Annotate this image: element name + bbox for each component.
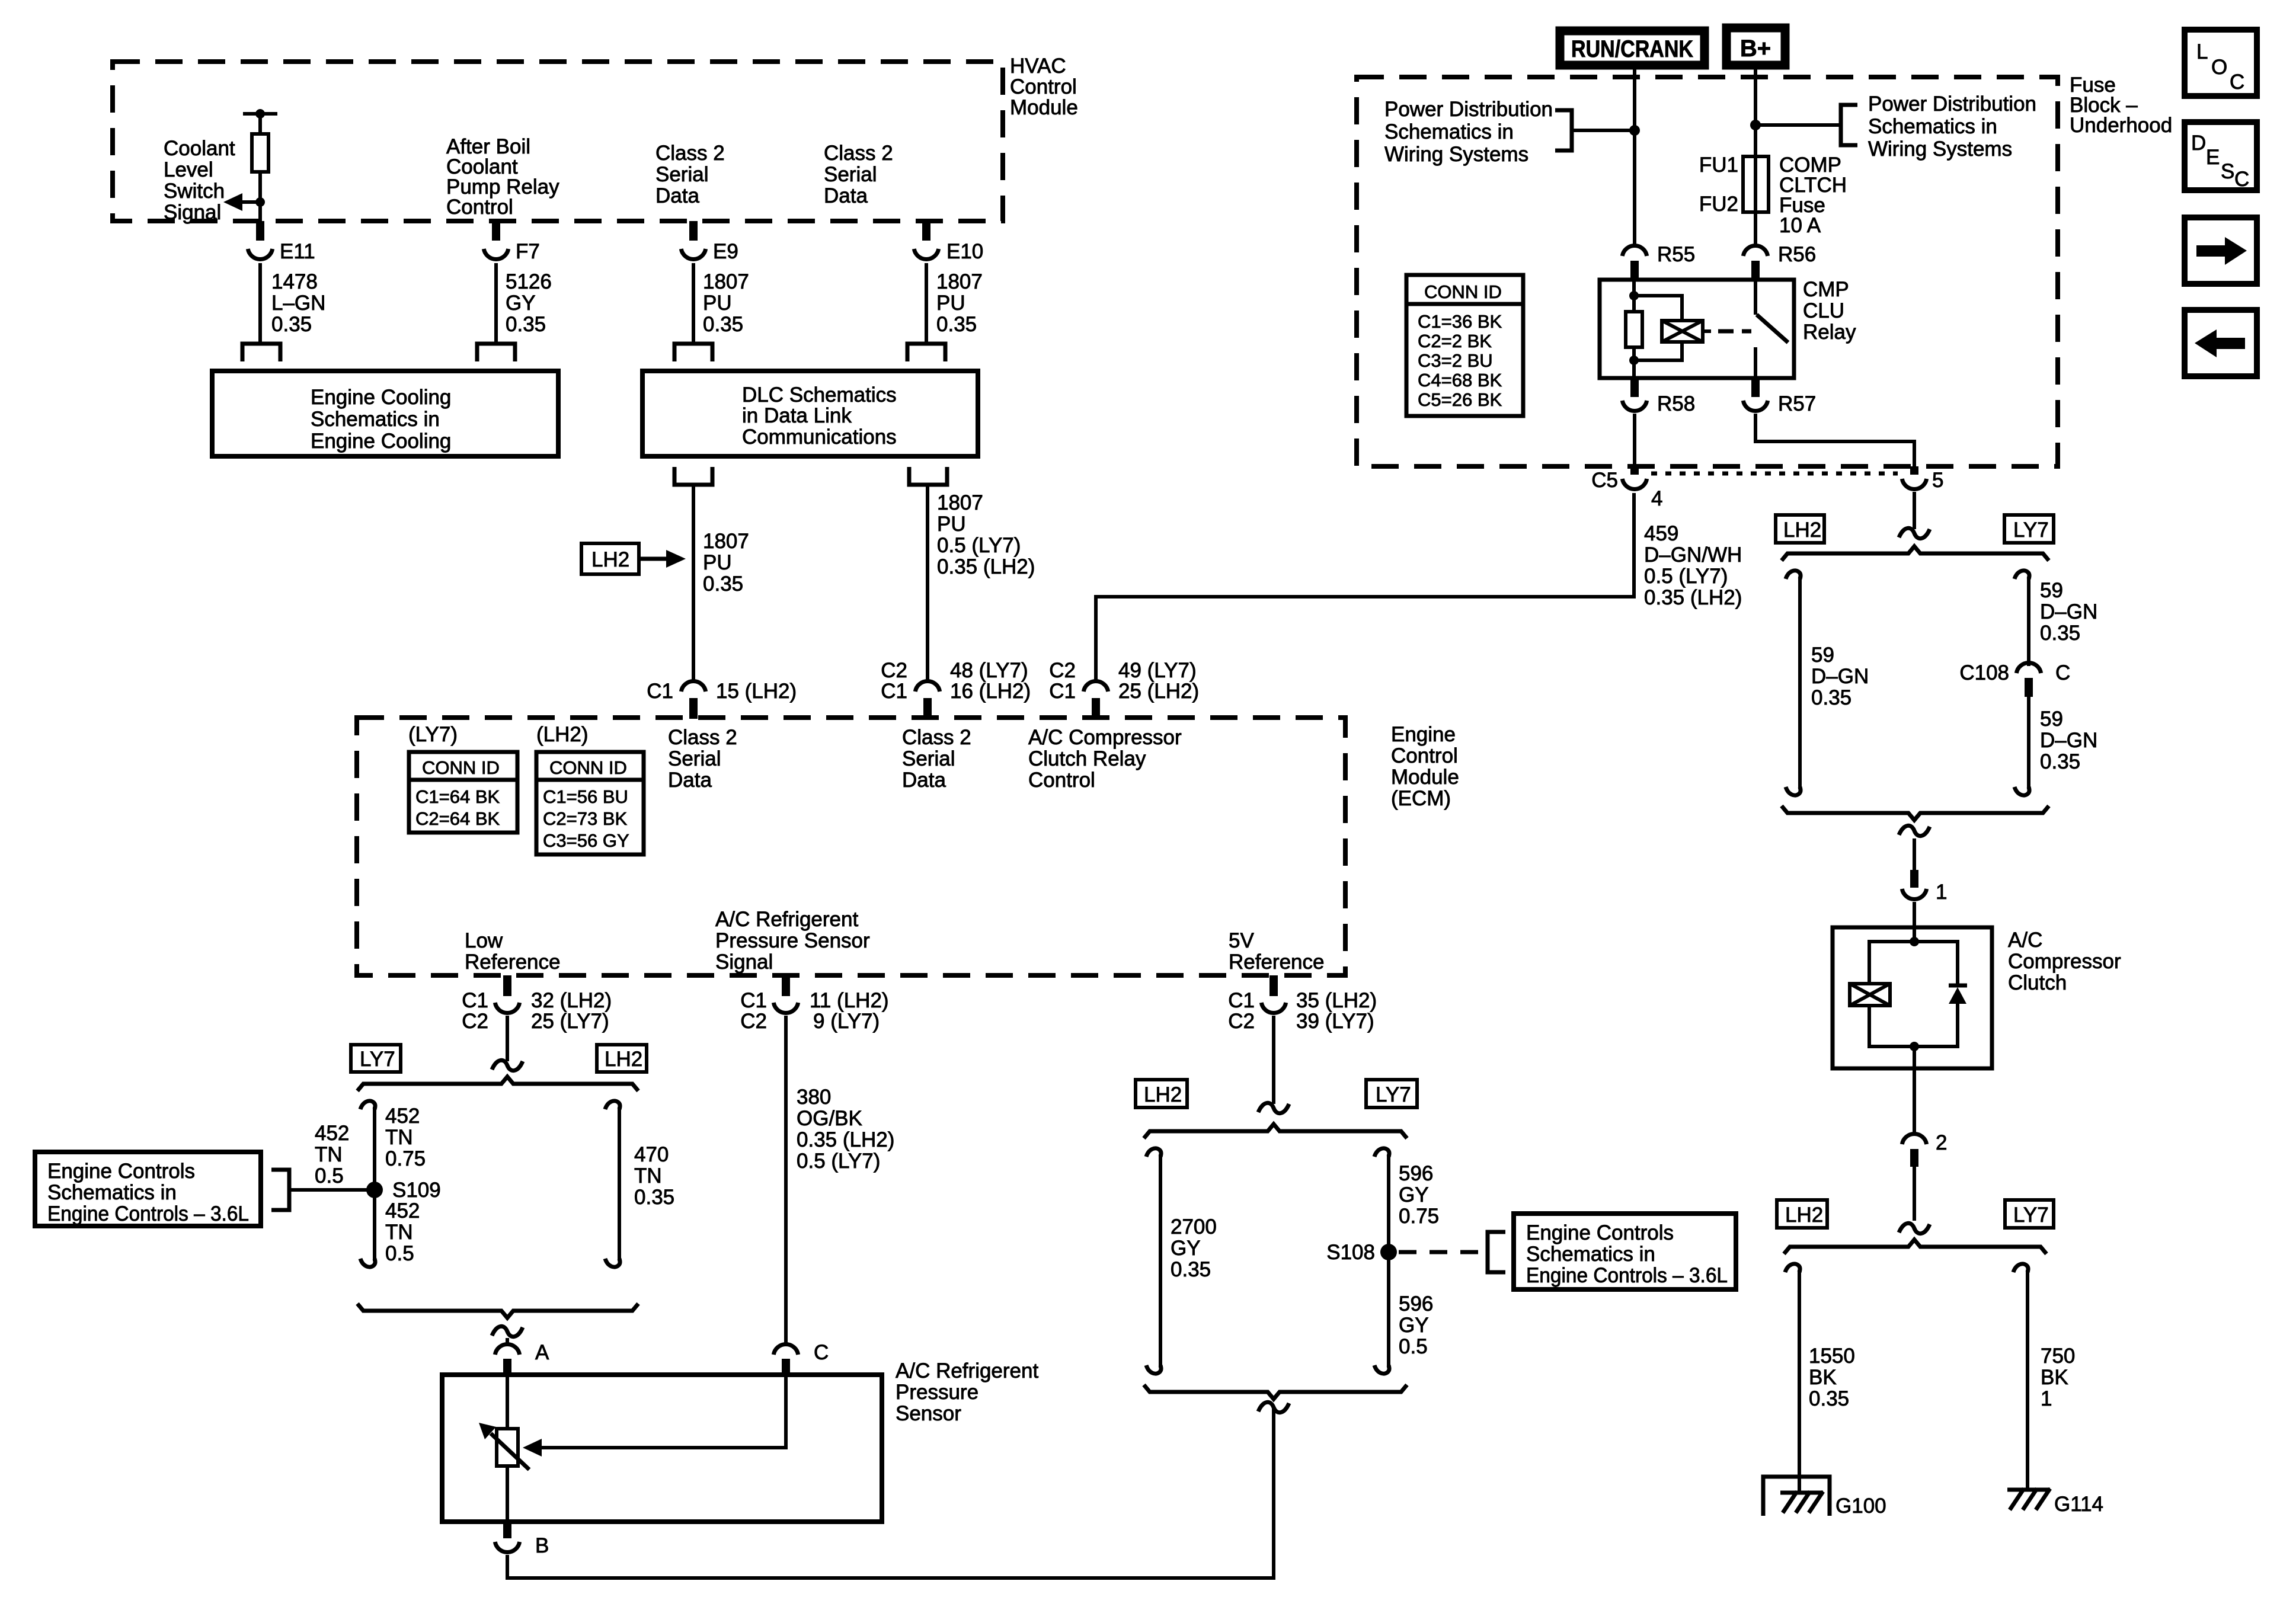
svg-text:B+: B+	[1740, 36, 1771, 62]
svg-text:PU: PU	[703, 551, 732, 574]
ground G100	[1763, 1477, 1886, 1518]
svg-text:0.5: 0.5	[315, 1164, 344, 1188]
label 596 GY 0.5 (below S108)	[1399, 1292, 1433, 1358]
svg-text:in Data Link: in Data Link	[742, 404, 852, 427]
wire 452 TN 0.75 branch (LY7)	[360, 1101, 426, 1267]
svg-text:0.5: 0.5	[1399, 1335, 1428, 1358]
break symbol (below connector 2)	[1899, 1223, 1930, 1233]
svg-text:Serial: Serial	[668, 747, 721, 770]
splice S108	[1326, 1241, 1397, 1264]
svg-text:0.35 (LH2): 0.35 (LH2)	[1644, 586, 1742, 609]
wire DLC to ECM C1 pin 15	[692, 485, 695, 681]
svg-text:0.5: 0.5	[385, 1242, 414, 1265]
svg-text:5: 5	[1932, 469, 1943, 492]
svg-text:1: 1	[2041, 1387, 2052, 1410]
svg-text:0.5 (LY7): 0.5 (LY7)	[797, 1150, 880, 1173]
svg-text:(LY7): (LY7)	[408, 723, 458, 746]
svg-text:1807: 1807	[937, 491, 983, 514]
svg-text:C1: C1	[647, 680, 673, 703]
break symbol (above clutch connector 1)	[1899, 825, 1930, 836]
svg-text:PU: PU	[937, 513, 966, 536]
svg-text:1478: 1478	[271, 270, 318, 293]
icon DESC	[2185, 122, 2257, 191]
wire 1807 PU 0.35 (E10)	[926, 263, 983, 344]
relay CMP CLU box	[1600, 278, 1856, 378]
svg-text:BK: BK	[2041, 1366, 2068, 1389]
A/C Refrigerent Pressure Sensor box	[442, 1359, 1038, 1522]
svg-text:E: E	[2206, 146, 2220, 169]
svg-text:S108: S108	[1326, 1241, 1375, 1264]
svg-text:Engine: Engine	[1391, 723, 1456, 746]
svg-text:C2: C2	[881, 659, 907, 682]
break symbol (5V reference)	[1258, 1103, 1289, 1113]
svg-text:TN: TN	[634, 1164, 662, 1188]
brace split top (59 D-GN)	[1782, 546, 2049, 561]
dashed lead S108 to bracket	[1399, 1250, 1482, 1254]
svg-text:C2=64 BK: C2=64 BK	[415, 808, 500, 829]
svg-text:Control: Control	[1028, 769, 1095, 792]
svg-text:L–GN: L–GN	[271, 292, 325, 315]
svg-text:Communications: Communications	[742, 425, 897, 449]
svg-text:R57: R57	[1778, 392, 1816, 415]
svg-text:0.35: 0.35	[936, 313, 977, 336]
node RUN/CRANK junction	[1572, 125, 1640, 136]
label HVAC Control Module	[1010, 55, 1078, 119]
connector pin C1/C2 11/9 (Pressure Sensor Signal)	[740, 975, 888, 1033]
svg-text:(LH2): (LH2)	[536, 723, 589, 746]
svg-text:C5=26 BK: C5=26 BK	[1418, 389, 1502, 410]
svg-text:D: D	[2191, 132, 2206, 155]
svg-text:Engine Cooling: Engine Cooling	[311, 386, 451, 409]
svg-text:0.35: 0.35	[2040, 750, 2080, 773]
svg-text:C1: C1	[462, 989, 488, 1012]
svg-text:59: 59	[2040, 579, 2063, 602]
svg-text:750: 750	[2041, 1345, 2075, 1368]
connector pin C2/C1 49/25	[1049, 659, 1199, 719]
goalpost into DLC box (E10)	[907, 344, 945, 361]
svg-text:11 (LH2): 11 (LH2)	[810, 989, 889, 1012]
wire DLC to ECM C2/C1 pin 48/16	[926, 485, 929, 681]
svg-text:Relay: Relay	[1803, 321, 1856, 344]
wire 1807 PU 0.35 (E9)	[693, 263, 749, 344]
svg-text:0.35 (LH2): 0.35 (LH2)	[937, 555, 1035, 578]
wire R58 to C5 pin 4	[1633, 414, 1636, 468]
svg-text:O: O	[2211, 56, 2227, 79]
goalpost exit below DLC box (left)	[674, 467, 712, 485]
svg-text:5V: 5V	[1229, 929, 1254, 952]
svg-text:E10: E10	[946, 240, 983, 263]
label Low Reference	[465, 929, 560, 974]
wire 459 D-GN/WH label	[1644, 522, 1742, 609]
bracket to Engine Controls box (S108)	[1488, 1232, 1505, 1272]
svg-text:Schematics in: Schematics in	[47, 1181, 177, 1204]
node B+ junction	[1750, 120, 1841, 130]
tag LY7 (59 split right)	[2004, 515, 2054, 543]
wire 59 D-GN 0.35 upper branch (LY7)	[2014, 571, 2097, 666]
svg-text:Serial: Serial	[902, 747, 955, 770]
svg-text:Control: Control	[446, 196, 513, 219]
tag LH2 (ground split left)	[1777, 1200, 1827, 1228]
wire RUN/CRANK down to R55	[1633, 65, 1636, 247]
connector pin B	[495, 1522, 549, 1557]
connector pin C1/C2 32/25 (Low Reference)	[462, 975, 612, 1033]
svg-text:R55: R55	[1657, 243, 1695, 266]
relay coil winding symbol	[1634, 296, 1703, 360]
svg-text:452: 452	[385, 1105, 420, 1128]
svg-text:LY7: LY7	[360, 1048, 395, 1071]
svg-text:Engine Controls – 3.6L: Engine Controls – 3.6L	[47, 1202, 249, 1225]
svg-text:59: 59	[2040, 708, 2063, 731]
clutch coil and diode	[1850, 927, 1967, 1068]
connector pin C1/C2 35/39 (5V Reference)	[1228, 975, 1377, 1033]
connector pin E9	[681, 221, 738, 263]
svg-text:0.35: 0.35	[506, 313, 546, 336]
svg-text:5126: 5126	[506, 270, 552, 293]
svg-text:TN: TN	[315, 1143, 343, 1166]
svg-text:F7: F7	[516, 240, 540, 263]
wire 2700 GY 0.35 branch (LH2)	[1146, 1148, 1217, 1374]
svg-text:596: 596	[1399, 1292, 1433, 1315]
svg-text:380: 380	[797, 1086, 831, 1109]
svg-text:2: 2	[1936, 1131, 1947, 1154]
svg-text:Engine Cooling: Engine Cooling	[311, 430, 451, 453]
svg-text:0.35: 0.35	[1811, 686, 1851, 709]
break symbol (above sensor A)	[492, 1326, 523, 1336]
svg-text:LY7: LY7	[2013, 1204, 2049, 1227]
goalpost into Engine Cooling box (F7)	[477, 344, 515, 361]
svg-text:CLU: CLU	[1803, 299, 1844, 322]
connector pin R55	[1622, 243, 1695, 281]
goalpost exit below DLC box (right)	[909, 467, 947, 485]
icon arrow left	[2185, 310, 2257, 376]
svg-text:32 (LH2): 32 (LH2)	[531, 989, 612, 1012]
svg-text:49 (LY7): 49 (LY7)	[1118, 659, 1197, 682]
svg-text:CONN ID: CONN ID	[1424, 281, 1502, 302]
svg-text:CMP: CMP	[1803, 278, 1849, 301]
svg-text:9 (LY7): 9 (LY7)	[813, 1010, 880, 1033]
wire pin C to variable resistor wiper	[523, 1375, 786, 1457]
label Class 2 Serial Data (pin 48)	[902, 726, 971, 792]
label 5V Reference	[1229, 929, 1324, 974]
label 1807 PU 0.35 (mid)	[703, 530, 749, 596]
svg-text:Signal: Signal	[715, 950, 773, 974]
svg-text:1807: 1807	[703, 270, 749, 293]
label (LY7)	[408, 723, 458, 746]
svg-text:Pressure Sensor: Pressure Sensor	[715, 929, 870, 952]
wire 59 D-GN 0.35 lower branch (LY7)	[2014, 697, 2097, 795]
svg-text:0.35 (LH2): 0.35 (LH2)	[797, 1128, 894, 1151]
label After Boil Coolant Pump Relay Control	[446, 135, 559, 219]
break symbol (low reference)	[492, 1060, 523, 1070]
svg-text:Module: Module	[1010, 96, 1078, 119]
svg-text:0.35: 0.35	[634, 1186, 674, 1209]
node coolant level switch signal junction	[223, 193, 265, 211]
svg-text:G100: G100	[1835, 1494, 1886, 1518]
wire R57 to pin 5	[1755, 414, 1914, 468]
svg-text:LH2: LH2	[591, 548, 629, 571]
bracket to Power Distribution (right)	[1841, 105, 1857, 145]
Engine Controls Schematics box (S109)	[35, 1152, 261, 1226]
tag LH2 (low ref right)	[597, 1045, 647, 1072]
label Class 2 Serial Data (pin 15)	[668, 726, 737, 792]
svg-text:GY: GY	[1171, 1237, 1201, 1260]
relay coil resistor	[1626, 280, 1642, 378]
svg-text:Reference: Reference	[465, 950, 560, 974]
tag LH2 with arrow	[581, 543, 686, 574]
svg-text:A/C Refrigerent: A/C Refrigerent	[715, 908, 858, 931]
goalpost into DLC box (E9)	[674, 344, 712, 361]
svg-text:Class 2: Class 2	[655, 142, 725, 165]
connector pin R56	[1743, 243, 1816, 281]
svg-text:1550: 1550	[1809, 1345, 1855, 1368]
svg-text:59: 59	[1811, 644, 1834, 667]
svg-text:TN: TN	[385, 1126, 413, 1149]
svg-text:Compressor: Compressor	[2008, 950, 2121, 973]
svg-text:Class 2: Class 2	[668, 726, 737, 749]
svg-text:Class 2: Class 2	[824, 142, 893, 165]
svg-text:C2=2 BK: C2=2 BK	[1418, 331, 1492, 351]
label Coolant Level Switch Signal	[164, 137, 235, 224]
power feed box B+	[1726, 28, 1785, 65]
svg-text:A/C Refrigerent: A/C Refrigerent	[896, 1359, 1038, 1382]
coolant level switch resistor	[243, 109, 277, 221]
svg-text:D–GN: D–GN	[2040, 600, 2097, 623]
svg-text:0.35: 0.35	[1171, 1258, 1211, 1281]
svg-text:PU: PU	[703, 292, 732, 315]
wire 5126 GY 0.35	[496, 263, 552, 344]
connector pin A	[495, 1338, 549, 1375]
svg-text:Wiring Systems: Wiring Systems	[1384, 143, 1528, 166]
svg-text:Coolant: Coolant	[164, 137, 235, 160]
svg-text:0.75: 0.75	[385, 1147, 426, 1170]
svg-text:0.35: 0.35	[2040, 622, 2080, 645]
svg-text:25 (LY7): 25 (LY7)	[531, 1010, 609, 1033]
svg-text:HVAC: HVAC	[1010, 55, 1066, 78]
connector pin C1 15 (LH2)	[647, 680, 797, 719]
svg-text:C1: C1	[740, 989, 767, 1012]
svg-text:452: 452	[385, 1199, 420, 1222]
svg-text:452: 452	[315, 1122, 349, 1145]
CONN ID table (LY7)	[409, 752, 517, 833]
connector pin F7	[484, 221, 540, 263]
power feed box RUN/CRANK	[1560, 31, 1705, 65]
tag LY7 (5V right)	[1366, 1080, 1417, 1108]
svg-text:C2=73 BK: C2=73 BK	[543, 808, 628, 829]
brace split top (5V reference)	[1144, 1124, 1407, 1138]
svg-text:GY: GY	[506, 292, 536, 315]
svg-text:Underhood: Underhood	[2070, 114, 2172, 137]
label A/C Compressor Clutch Relay Control	[1028, 726, 1182, 792]
svg-text:C3=2 BU: C3=2 BU	[1418, 350, 1493, 371]
svg-text:Pressure: Pressure	[896, 1381, 978, 1404]
wire pin 5 down to split	[1913, 492, 1916, 529]
svg-text:C: C	[2230, 71, 2244, 94]
svg-text:Clutch Relay: Clutch Relay	[1028, 747, 1146, 770]
dotted connector line C5 to 5	[1651, 472, 1898, 476]
svg-text:RUN/CRANK: RUN/CRANK	[1571, 36, 1693, 62]
svg-text:LH2: LH2	[605, 1048, 642, 1071]
svg-text:Engine Controls: Engine Controls	[1526, 1221, 1674, 1244]
connector pin R57	[1743, 378, 1816, 415]
svg-text:S: S	[2221, 160, 2234, 183]
svg-text:C2: C2	[740, 1010, 767, 1033]
svg-text:GY: GY	[1399, 1314, 1429, 1337]
svg-text:0.35: 0.35	[1809, 1387, 1849, 1410]
wire 750 BK 1 to G114	[2013, 1264, 2075, 1490]
fuse COMP CLTCH 10 A	[1699, 153, 1847, 237]
svg-text:Reference: Reference	[1229, 950, 1324, 974]
svg-text:Switch: Switch	[164, 180, 225, 203]
svg-text:Serial: Serial	[655, 163, 708, 186]
label 1807 PU 0.5 (LY7) 0.35 (LH2)	[937, 491, 1035, 578]
wire B to 5V reference merge (bottom run)	[507, 1409, 1274, 1578]
connector pin E10	[914, 221, 983, 263]
bracket to Power Distribution (left)	[1555, 110, 1572, 151]
svg-text:LY7: LY7	[1376, 1083, 1411, 1106]
svg-text:Engine Controls – 3.6L: Engine Controls – 3.6L	[1526, 1264, 1728, 1287]
tag LH2 (5V left)	[1136, 1080, 1187, 1108]
in-line connector 2	[1902, 1068, 1947, 1221]
svg-text:Data: Data	[655, 184, 699, 207]
tag LY7 (ground split right)	[2005, 1200, 2054, 1228]
connector pin C2/C1 48/16	[881, 659, 1031, 719]
svg-text:A/C Compressor: A/C Compressor	[1028, 726, 1182, 749]
svg-text:Schematics in: Schematics in	[1384, 120, 1514, 143]
svg-text:LH2: LH2	[1785, 1204, 1823, 1227]
svg-text:E11: E11	[280, 240, 315, 263]
svg-text:C4=68 BK: C4=68 BK	[1418, 370, 1502, 391]
svg-text:459: 459	[1644, 522, 1678, 545]
svg-text:Schematics in: Schematics in	[1868, 115, 1997, 138]
svg-text:Data: Data	[824, 184, 868, 207]
svg-text:Control: Control	[1010, 75, 1077, 98]
svg-text:1807: 1807	[703, 530, 749, 553]
wire 59 D-GN 0.35 branch (LH2)	[1786, 571, 1869, 795]
in-line connector 1	[1902, 838, 1947, 927]
svg-text:S109: S109	[392, 1179, 441, 1202]
svg-text:C: C	[2055, 661, 2070, 684]
svg-text:A: A	[535, 1341, 549, 1364]
svg-text:OG/BK: OG/BK	[797, 1107, 862, 1130]
wire 5V reference down to split	[1272, 1016, 1275, 1104]
svg-text:4: 4	[1651, 487, 1662, 510]
svg-text:C2: C2	[1049, 659, 1076, 682]
svg-text:CONN ID: CONN ID	[422, 757, 500, 778]
tag LH2 (59 split left)	[1776, 515, 1824, 543]
wire S109 to Engine Controls bracket	[289, 1122, 375, 1190]
svg-text:Sensor: Sensor	[896, 1402, 961, 1425]
svg-text:LH2: LH2	[1783, 518, 1821, 542]
svg-text:0.5 (LY7): 0.5 (LY7)	[1644, 565, 1728, 588]
break symbol (below 5V merge)	[1258, 1402, 1289, 1412]
label Class 2 Serial Data (E10)	[824, 142, 893, 207]
svg-text:48 (LY7): 48 (LY7)	[950, 659, 1028, 682]
svg-text:Class 2: Class 2	[902, 726, 971, 749]
svg-text:DLC Schematics: DLC Schematics	[742, 383, 897, 406]
svg-text:E9: E9	[713, 240, 738, 263]
icon arrow right	[2185, 217, 2257, 284]
svg-text:Signal: Signal	[164, 201, 221, 224]
A/C Compressor Clutch box	[1833, 927, 2121, 1068]
svg-text:C108: C108	[1959, 661, 2009, 684]
DLC Schematics box	[642, 371, 978, 456]
wire 380 OG/BK (signal) down to pin C	[786, 1016, 894, 1346]
HVAC Control Module dashed box	[113, 62, 1003, 221]
svg-text:LY7: LY7	[2013, 518, 2049, 542]
svg-text:GY: GY	[1399, 1183, 1429, 1206]
svg-text:C2: C2	[462, 1010, 488, 1033]
brace split top (grounds)	[1784, 1240, 2046, 1254]
svg-text:Serial: Serial	[824, 163, 877, 186]
svg-text:R56: R56	[1778, 243, 1816, 266]
svg-text:C: C	[814, 1341, 829, 1364]
svg-text:596: 596	[1399, 1162, 1433, 1185]
wire low reference down to split	[506, 1016, 509, 1061]
label Fuse Block Underhood	[2070, 73, 2172, 137]
goalpost into Engine Cooling box (E11)	[242, 344, 280, 361]
label Class 2 Serial Data (E9)	[655, 142, 725, 207]
splice S109	[366, 1179, 441, 1202]
svg-text:R58: R58	[1657, 392, 1695, 415]
svg-text:(ECM): (ECM)	[1391, 787, 1451, 810]
ECM dashed box	[357, 718, 1345, 975]
svg-text:Data: Data	[902, 769, 946, 792]
connector C108 pin C	[1959, 661, 2070, 697]
Engine Controls Schematics box (S108)	[1514, 1214, 1736, 1289]
label A/C Refrigerent Pressure Sensor Signal	[715, 908, 870, 974]
wire 1550 BK 0.35 to G100	[1785, 1264, 1855, 1493]
svg-text:C1=36 BK: C1=36 BK	[1418, 311, 1502, 332]
svg-text:C1: C1	[1049, 680, 1076, 703]
svg-text:BK: BK	[1809, 1366, 1837, 1389]
svg-text:Level: Level	[164, 158, 213, 181]
svg-text:39 (LY7): 39 (LY7)	[1296, 1010, 1374, 1033]
svg-text:PU: PU	[936, 292, 965, 315]
svg-text:C1: C1	[1228, 989, 1255, 1012]
ground G114	[2007, 1489, 2103, 1516]
relay switch	[1755, 280, 1788, 378]
connector pin E11	[248, 221, 315, 263]
svg-text:0.35: 0.35	[703, 313, 743, 336]
brace merge bottom (5V reference)	[1144, 1385, 1407, 1399]
svg-text:16 (LH2): 16 (LH2)	[950, 680, 1031, 703]
wire 470 TN 0.35 branch (LH2)	[605, 1101, 674, 1267]
tag LY7 (low ref left)	[351, 1045, 401, 1072]
wire B+ down to R56	[1754, 65, 1757, 247]
relay actuation dashed link	[1703, 329, 1751, 333]
svg-text:D–GN: D–GN	[1811, 665, 1869, 688]
svg-text:Data: Data	[668, 769, 712, 792]
break symbol (below pin 5)	[1899, 528, 1930, 538]
svg-text:Module: Module	[1391, 766, 1459, 789]
svg-text:Control: Control	[1391, 744, 1458, 767]
CONN ID table (fuse block)	[1406, 275, 1523, 416]
wire 596 GY 0.75 branch (LY7)	[1374, 1148, 1439, 1374]
svg-text:25 (LH2): 25 (LH2)	[1118, 680, 1199, 703]
svg-text:FU2: FU2	[1699, 193, 1738, 216]
svg-text:FU1: FU1	[1699, 153, 1738, 177]
svg-text:Engine Controls: Engine Controls	[47, 1160, 195, 1183]
icon LOC	[2185, 30, 2257, 96]
svg-text:2700: 2700	[1171, 1215, 1217, 1238]
svg-text:C: C	[2234, 168, 2249, 191]
svg-text:LH2: LH2	[1144, 1083, 1182, 1106]
svg-text:CONN ID: CONN ID	[549, 757, 627, 778]
svg-text:Schematics in: Schematics in	[311, 408, 440, 431]
svg-text:35 (LH2): 35 (LH2)	[1296, 989, 1377, 1012]
connector pin C5 4	[1591, 466, 1662, 510]
svg-text:D–GN: D–GN	[2040, 729, 2097, 752]
